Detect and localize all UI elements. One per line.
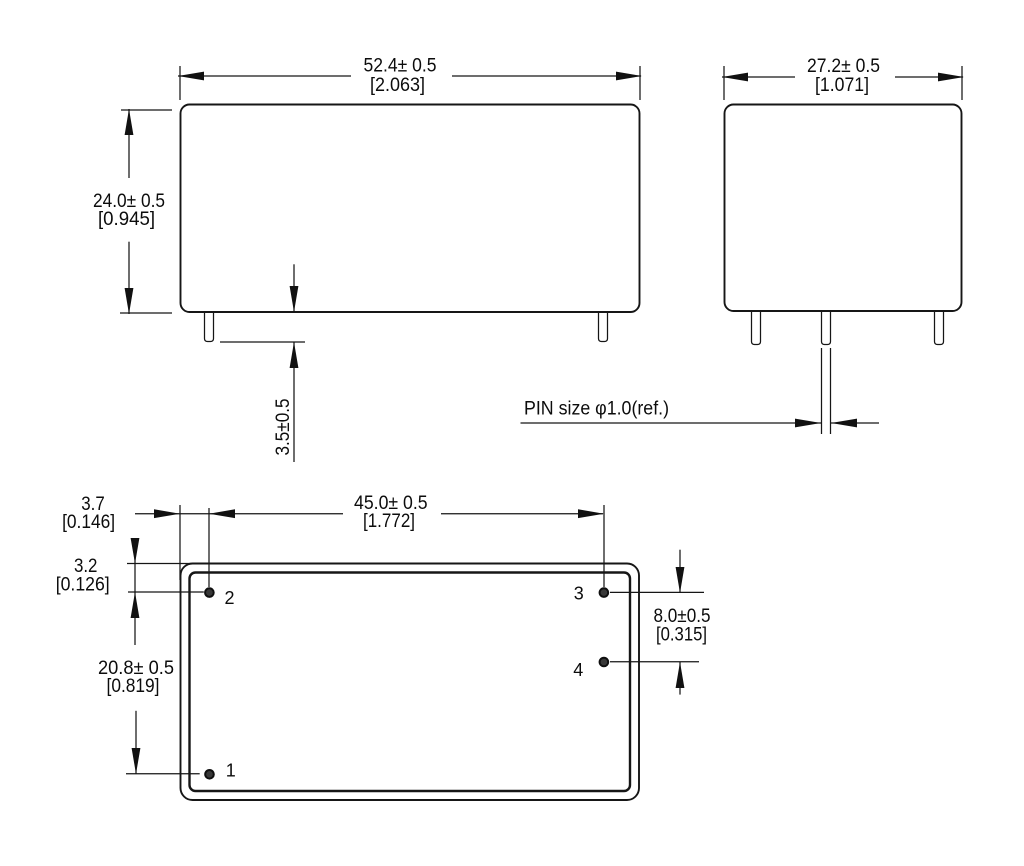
side view body: [725, 105, 962, 312]
dimension 3.7 text: [62, 494, 115, 533]
pin 2 row extension line: [128, 591, 204, 593]
pin size callout extension lines: [822, 348, 831, 434]
svg-text:3: 3: [574, 584, 584, 604]
svg-text:4: 4: [573, 660, 583, 680]
dimension 3.7 and 45.0 line: [135, 509, 604, 518]
bottom view outer body: [181, 564, 640, 801]
pin 3 row extension line: [610, 591, 704, 593]
dimension 27.2 line: [722, 73, 964, 82]
dimension 27.2 text: [807, 56, 880, 96]
dimension 8.0 text: [654, 606, 711, 646]
dimension 3.5 text: [273, 399, 294, 456]
dimension 45.0 text: [354, 493, 428, 532]
side view left pin: [752, 311, 761, 345]
dimension 24.0 line: [125, 109, 134, 314]
front view right pin: [599, 312, 608, 342]
body top edge extension line: [127, 563, 193, 565]
bottom view inner body: [190, 573, 631, 792]
pin size callout dimension line: [521, 419, 880, 428]
dimension 52.4 extension line left: [179, 66, 181, 100]
dimension 27.2 extension line left: [723, 66, 725, 100]
pin 1 row extension line: [126, 773, 200, 775]
dimension 8.0 line: [676, 550, 685, 695]
pin 2 column extension line: [208, 508, 210, 587]
front view body: [181, 105, 640, 313]
svg-text:1: 1: [226, 761, 236, 781]
dimension 3.5 lower line: [290, 342, 299, 462]
side view right pin: [935, 311, 944, 345]
pin 4: [600, 658, 609, 667]
dimension 52.4 extension line right: [639, 66, 641, 100]
dimension 3.2 text: [56, 556, 110, 596]
svg-text:[2.063]: [2.063]: [370, 75, 425, 96]
dimension 27.2 extension line right: [961, 66, 963, 100]
pin 3 label: [574, 584, 584, 604]
pin 4 row extension line: [610, 661, 699, 663]
side view center pin: [822, 311, 831, 345]
svg-text:[1.772]: [1.772]: [363, 511, 415, 532]
dimension 52.4 line: [178, 72, 642, 81]
dimension 3.5 upper line: [290, 264, 299, 312]
pin 2: [205, 588, 214, 597]
svg-text:[0.126]: [0.126]: [56, 575, 110, 596]
pin 3 column extension line: [603, 505, 605, 587]
pin 1: [205, 770, 214, 779]
dimension 3.2 and 20.8 line: [131, 538, 141, 774]
svg-text:52.4± 0.5: 52.4± 0.5: [364, 56, 437, 77]
svg-text:[1.071]: [1.071]: [815, 75, 869, 96]
pin 2 label: [224, 588, 234, 608]
dimension 24.0 extension line top: [121, 109, 172, 111]
svg-text:[0.315]: [0.315]: [656, 625, 707, 646]
dimension 24.0 extension line bottom: [120, 312, 172, 314]
svg-text:[0.819]: [0.819]: [107, 676, 160, 697]
svg-text:[0.146]: [0.146]: [62, 512, 115, 533]
svg-text:PIN size φ1.0(ref.): PIN size φ1.0(ref.): [524, 399, 669, 420]
dimension 20.8 text: [98, 658, 174, 697]
bottom view left edge extension line: [179, 505, 181, 580]
dimension 52.4 text: [364, 56, 437, 97]
pin 1 label: [226, 761, 236, 781]
dimension 3.5 extension line: [220, 341, 305, 343]
svg-text:3.5±0.5: 3.5±0.5: [273, 399, 294, 456]
pin 3: [600, 588, 609, 597]
front view left pin: [205, 312, 214, 342]
dimension 24.0 text: [93, 191, 165, 230]
pin size callout text: [524, 399, 669, 420]
svg-text:[0.945]: [0.945]: [98, 209, 155, 230]
svg-text:27.2± 0.5: 27.2± 0.5: [807, 56, 880, 77]
svg-text:2: 2: [224, 588, 234, 608]
pin 4 label: [573, 660, 583, 680]
